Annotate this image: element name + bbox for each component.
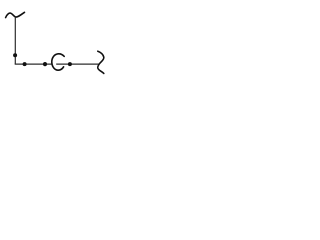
- junction dot (mid horizontal wire): [43, 62, 47, 66]
- junction dot (on vertical wire): [13, 53, 17, 57]
- wire break squiggle (top, continuation of net): [6, 12, 25, 17]
- junction dot (left of corner): [23, 62, 27, 66]
- wire (horizontal right segment): [56, 63, 99, 65]
- wire (vertical segment): [14, 17, 16, 64]
- open-circle connector terminal (C-shaped clip): [52, 54, 64, 70]
- wire (horizontal left segment, corner to terminal): [15, 63, 52, 65]
- junction dot (right wire): [68, 62, 72, 66]
- wire break squiggle (right, continuation of net): [98, 51, 104, 73]
